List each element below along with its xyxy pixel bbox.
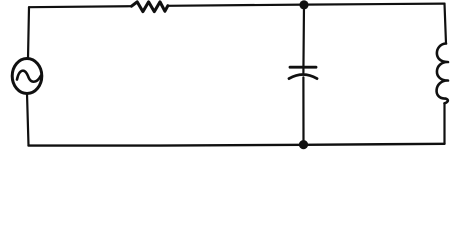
inductor L1: [437, 44, 448, 104]
capacitor C1 curved plate: [289, 75, 317, 79]
wire left upper: [28, 7, 29, 58]
wire capacitor upper lead: [302, 5, 305, 73]
wire right upper: [445, 4, 447, 44]
node bottom junction: [299, 140, 308, 149]
wire top-right segment: [168, 4, 445, 6]
wire bottom: [29, 144, 445, 146]
wire right lower: [443, 103, 445, 144]
wire capacitor lower lead: [302, 77, 304, 141]
resistor R1: [132, 2, 168, 12]
ac source V1: [12, 59, 42, 94]
node top junction: [299, 0, 308, 9]
capacitor C1 top plate: [290, 66, 316, 69]
wire left lower: [27, 94, 29, 146]
wire top-left segment: [29, 6, 132, 7]
